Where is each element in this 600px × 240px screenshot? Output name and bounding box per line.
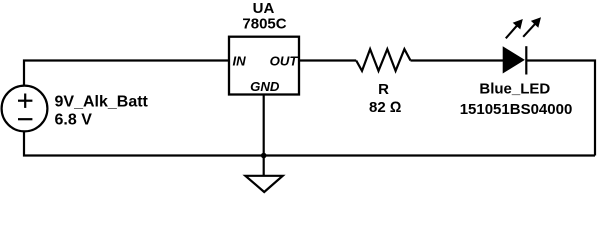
battery plus sign bbox=[18, 100, 32, 102]
battery minus sign bbox=[18, 118, 32, 120]
wire LED cathode to right edge and down bbox=[526, 61, 595, 156]
svg-text:IN: IN bbox=[233, 54, 247, 69]
resistor R zigzag bbox=[356, 49, 410, 71]
node junction dot bbox=[261, 153, 267, 159]
LED emission arrow 2 bbox=[523, 17, 541, 37]
svg-text:OUT: OUT bbox=[270, 54, 299, 69]
LED cathode bar bbox=[525, 46, 527, 74]
wire top-left from battery up and across to regulator IN bbox=[24, 61, 229, 86]
svg-text:82 Ω: 82 Ω bbox=[369, 99, 401, 116]
voltage regulator UA 7805C box bbox=[229, 37, 299, 95]
wire regulator GND down through junction to ground bbox=[263, 95, 265, 177]
svg-text:Blue_LED: Blue_LED bbox=[479, 80, 550, 97]
svg-text:GND: GND bbox=[250, 79, 280, 94]
svg-text:9V_Alk_Batt: 9V_Alk_Batt bbox=[55, 94, 149, 111]
wire bottom rail bbox=[24, 132, 595, 156]
svg-text:R: R bbox=[378, 81, 389, 98]
svg-text:7805C: 7805C bbox=[242, 15, 286, 32]
wire regulator OUT to resistor bbox=[299, 59, 356, 61]
LED emission arrow 1 bbox=[506, 19, 523, 38]
wire resistor to LED bbox=[411, 59, 504, 61]
LED Blue_LED triangle (anode) bbox=[503, 47, 524, 72]
battery 9V_Alk_Batt circle bbox=[2, 86, 48, 132]
svg-text:151051BS04000: 151051BS04000 bbox=[460, 101, 573, 118]
svg-text:6.8 V: 6.8 V bbox=[55, 112, 93, 129]
ground symbol bbox=[245, 176, 282, 192]
